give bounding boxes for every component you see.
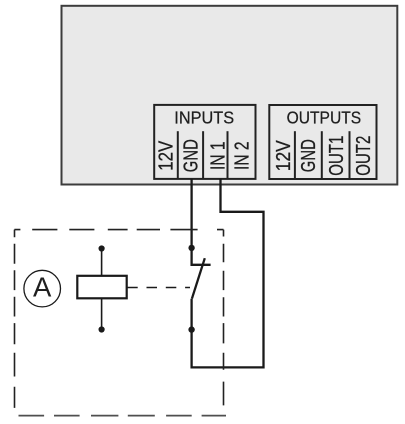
svg-text:GND: GND (298, 139, 320, 172)
svg-text:12V: 12V (273, 140, 295, 172)
svg-text:OUT1: OUT1 (326, 136, 348, 176)
svg-text:INPUTS: INPUTS (174, 108, 234, 128)
svg-text:A: A (33, 272, 52, 303)
svg-text:12V: 12V (155, 140, 177, 171)
svg-text:IN 2: IN 2 (232, 141, 254, 170)
svg-text:OUTPUTS: OUTPUTS (287, 108, 362, 128)
svg-text:OUT2: OUT2 (353, 136, 375, 176)
svg-text:IN 1: IN 1 (208, 141, 230, 170)
svg-text:GND: GND (181, 139, 203, 172)
